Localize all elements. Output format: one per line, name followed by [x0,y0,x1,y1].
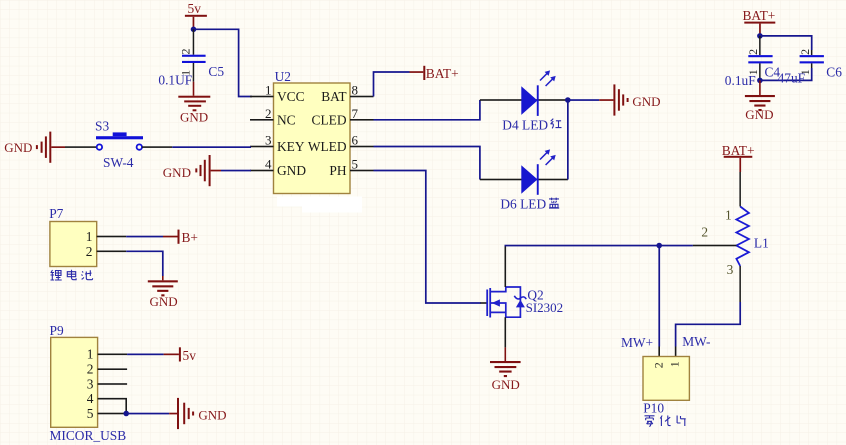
wire D4 to ground [568,99,599,101]
node D4 cathode junction [565,97,571,103]
wire P9 pin1 to 5v [127,354,164,356]
svg-text:2: 2 [798,49,812,55]
inductor L1 (tapped) [693,172,769,302]
svg-text:3: 3 [727,262,734,277]
svg-text:C5: C5 [208,64,224,79]
svg-text:MICOR_USB: MICOR_USB [50,428,127,443]
svg-text:MW+: MW+ [621,335,653,350]
svg-text:P9: P9 [50,323,64,338]
svg-text:7: 7 [352,106,359,121]
svg-text:47uF: 47uF [778,70,806,85]
source lead of Q2 [505,317,507,347]
pin 5 lead of P9 [98,413,127,415]
ground (left of switch S3) [4,132,65,163]
power port 5v (at P9) [164,347,197,363]
wire WLED pin6 to D6 [374,147,480,180]
svg-text:MW-: MW- [682,334,710,349]
pin 3 lead of P9 [98,383,128,385]
node BAT+ top junction [757,33,763,39]
white smudge below U2 [277,197,362,213]
node 5v junction [191,27,197,33]
ground (below C4) [745,80,775,121]
pin 4 lead of P9 [98,399,127,414]
svg-text:SW-4: SW-4 [103,155,134,170]
svg-text:U2: U2 [275,69,291,84]
drain lead of Q2 [505,246,507,288]
pin 6 WLED lead [350,146,374,148]
svg-text:VCC: VCC [277,89,305,104]
svg-text:1: 1 [667,361,681,367]
capacitor C4 [725,36,781,88]
pin 5 PH lead [350,170,374,172]
wire P7 pin2 to ground [126,251,163,276]
wire ground to switch [65,146,97,148]
CJK lan (blue) [549,198,559,209]
wire 5v junction to U2 VCC [194,29,253,96]
svg-text:5: 5 [352,157,359,172]
svg-text:CLED: CLED [312,113,347,128]
pin 7 CLED lead [350,119,374,121]
capacitor C5 [158,29,224,87]
svg-text:PH: PH [329,163,346,178]
pin 2 lead of P9 [98,368,128,370]
connector P7 [49,206,96,267]
wire pin8 to BAT+ [374,72,410,97]
ground (below Q2) [490,347,521,391]
svg-text:BAT+: BAT+ [722,143,755,158]
switch S3 SW-4 [95,119,143,170]
svg-text:1: 1 [725,207,732,222]
connector P9 [50,323,127,443]
svg-text:GND: GND [492,377,520,392]
ground (below B+) [148,276,178,309]
svg-text:0.1uF: 0.1uF [725,73,756,88]
pin 1 VCC lead [250,96,274,98]
svg-text:GND: GND [198,407,226,422]
pin 2 NC lead [250,119,274,121]
wire P7 pin1 to B+ [126,236,163,238]
ground (right of D4) [599,84,660,115]
svg-text:2: 2 [701,224,708,239]
svg-text:0.1UF: 0.1UF [158,73,192,88]
svg-text:2: 2 [86,244,93,259]
diode D6 LED blue [480,149,568,211]
svg-text:GND: GND [4,140,32,155]
net label MW+ [621,335,653,350]
pin 1 lead of P7 [97,236,127,238]
svg-text:GND: GND [277,163,306,178]
pin 4 GND lead [250,170,274,172]
op-amp U2 (controller IC) [265,69,359,194]
wire junction down to P10 pin 2 [658,246,660,347]
diode D4 LED red [480,70,568,132]
svg-text:KEY: KEY [277,139,305,154]
svg-text:GND: GND [632,94,660,109]
power port BAT+ (at pin 8) [410,66,459,81]
svg-text:1: 1 [265,83,272,98]
svg-text:D4 LED: D4 LED [502,117,548,132]
wire D6 cathode up to junction [567,100,569,180]
CJK label li-dian-chi (lithium battery) [51,270,93,280]
svg-text:5: 5 [87,406,94,421]
svg-text:2: 2 [179,49,193,55]
transistor Q2 SI2302 [481,287,564,318]
svg-text:GND: GND [180,110,208,125]
svg-text:2: 2 [87,362,94,377]
wire P9 pin5 to ground [126,413,169,415]
wire Q2 drain to L1 tap [505,245,693,247]
svg-text:5v: 5v [183,348,197,363]
net label MW- [682,334,710,349]
svg-text:NC: NC [277,113,296,128]
ground (at U2 pin 4) [163,155,221,186]
svg-text:C6: C6 [826,64,842,79]
svg-text:BAT+: BAT+ [426,66,459,81]
node MW+ junction [656,243,662,249]
pin 1 lead of P9 [98,354,128,356]
svg-text:8: 8 [352,83,359,98]
svg-text:BAT: BAT [321,89,346,104]
svg-text:4: 4 [87,391,94,406]
svg-text:D6 LED: D6 LED [500,196,546,211]
svg-text:SI2302: SI2302 [526,300,564,315]
pin 2 lead of P7 [97,251,127,253]
pin 8 BAT lead [350,96,374,98]
wire C4 bottom to C6 bottom [760,68,812,80]
svg-text:3: 3 [265,133,272,148]
svg-text:S3: S3 [95,119,109,134]
svg-text:BAT+: BAT+ [743,8,776,23]
power port BAT+ (top right) [743,8,776,35]
wire switch to KEY pin 3 [142,146,251,148]
capacitor C6 [778,49,843,86]
svg-text:2: 2 [651,362,665,368]
svg-text:B+: B+ [182,230,198,245]
ground (below C5) [178,82,210,125]
node C4 bottom junction [757,78,763,84]
ground (right of P9) [169,398,226,429]
svg-text:1: 1 [86,229,93,244]
svg-text:2: 2 [746,49,760,55]
svg-text:GND: GND [163,165,191,180]
svg-text:4: 4 [265,157,272,172]
CJK hong (red) [551,119,562,129]
svg-text:5v: 5v [188,1,202,16]
wire PH pin5 to Q2 gate [374,171,482,304]
power port B+ [163,230,198,245]
svg-text:3: 3 [87,376,94,391]
svg-text:2: 2 [265,106,272,121]
svg-text:P10: P10 [643,400,664,415]
power port 5v (top left) [185,1,207,29]
svg-text:L1: L1 [754,236,769,251]
svg-text:6: 6 [352,133,359,148]
svg-text:WLED: WLED [308,139,347,154]
power port BAT+ (above L1) [722,143,755,172]
wire CLED pin7 to D4 [374,100,480,120]
node P9 pin5 junction [123,411,129,417]
svg-text:GND: GND [745,107,773,122]
svg-text:GND: GND [150,294,178,309]
svg-text:P7: P7 [49,206,63,221]
pin 3 KEY lead [250,146,274,148]
connector P10 [643,347,689,416]
CJK label wu-hua-pian (atomizer) [645,416,686,427]
svg-text:1: 1 [87,347,94,362]
wire L1 pin3 to P10 pin 1 [676,302,741,347]
wire BAT+ junction to C6 top [760,36,812,50]
wire ground to pin 4 [221,170,251,172]
